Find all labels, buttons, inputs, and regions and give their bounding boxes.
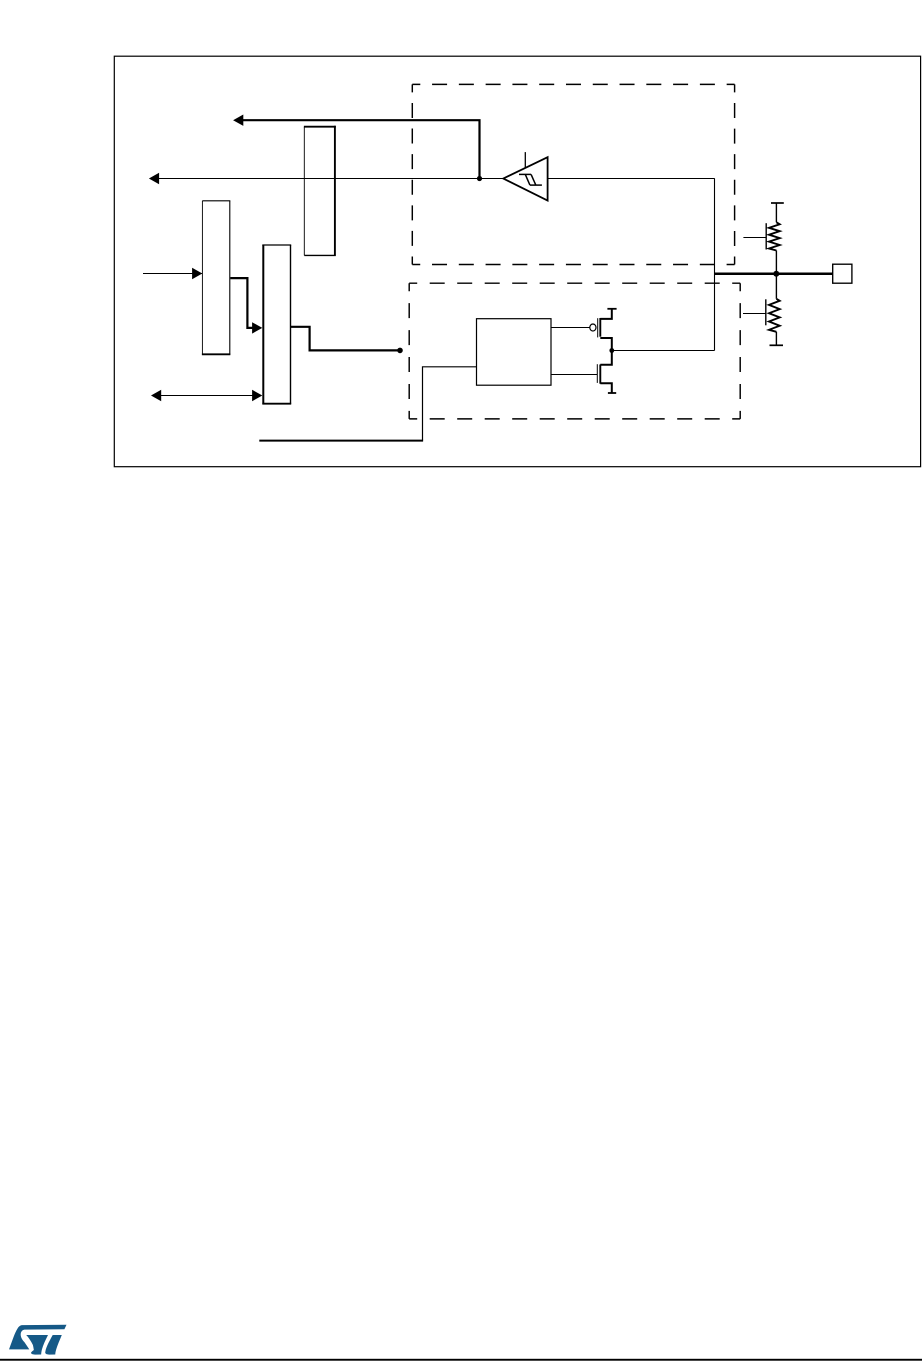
footer rule [0, 1359, 922, 1361]
wire: read/write double arrow [160, 395, 254, 397]
I/O pad [833, 264, 852, 283]
input driver dashed box [412, 84, 734, 264]
TTL schmitt trigger [503, 157, 547, 200]
output driver dashed box [409, 283, 740, 419]
wire: I/O line to pad (thick) [715, 273, 833, 276]
VDD rail bar above P-MOS [607, 308, 616, 310]
wire: alternate function input (thick, arrow left) [242, 120, 480, 178]
arrowhead into output data register [252, 322, 262, 333]
node: end dot [397, 348, 403, 354]
transistor N-MOS [597, 351, 612, 393]
wire: output to pad column [612, 350, 715, 352]
arrowhead write [192, 268, 202, 279]
wire: P-MOS gate [551, 327, 590, 329]
arrowhead alternate function input [233, 115, 243, 126]
arrowhead read path [149, 173, 159, 184]
VSS rail bar below N-MOS [608, 392, 616, 394]
wire: output data register to output control (thick, ends in dot) [291, 327, 401, 351]
P-MOS gate bubble [590, 324, 596, 331]
wire: output enable riser [423, 367, 477, 441]
wire: schmitt trigger output [548, 178, 715, 180]
node: schmitt output junction [477, 176, 482, 181]
wire: pull-down control [743, 313, 766, 315]
schmitt trigger vdd tick [524, 152, 526, 168]
wire: pull-up control [743, 237, 766, 239]
VDD rail bar above pull-up [771, 202, 784, 204]
node: push-pull output junction [609, 348, 614, 353]
hysteresis symbol [519, 174, 542, 185]
ST logo [9, 1325, 67, 1355]
VSS rail bar below pull-down [770, 344, 784, 346]
figure frame [114, 56, 920, 467]
pull-down on/off gate bar [765, 299, 767, 325]
wire: write arrow into bit set/reset registers [143, 273, 202, 275]
pull-up on/off gate bar [765, 223, 767, 249]
arrowhead read/write right [252, 390, 262, 401]
output data register [262, 245, 291, 404]
wire: bit set/reset to output data register (thick L) [230, 278, 253, 328]
wire: output enable bottom run [259, 440, 423, 442]
resistor pull-down [769, 275, 780, 345]
transistor P-MOS [598, 309, 612, 351]
resistor pull-up [769, 203, 780, 273]
arrowhead read/write left [151, 390, 161, 401]
node: pad junction [773, 271, 779, 277]
input data register [304, 126, 336, 256]
wire: pad column vertical [714, 179, 716, 351]
wire: N-MOS gate [551, 374, 597, 376]
output control block [477, 319, 552, 386]
bit set/reset registers [202, 201, 230, 355]
wire: read path to input data register [158, 178, 503, 180]
